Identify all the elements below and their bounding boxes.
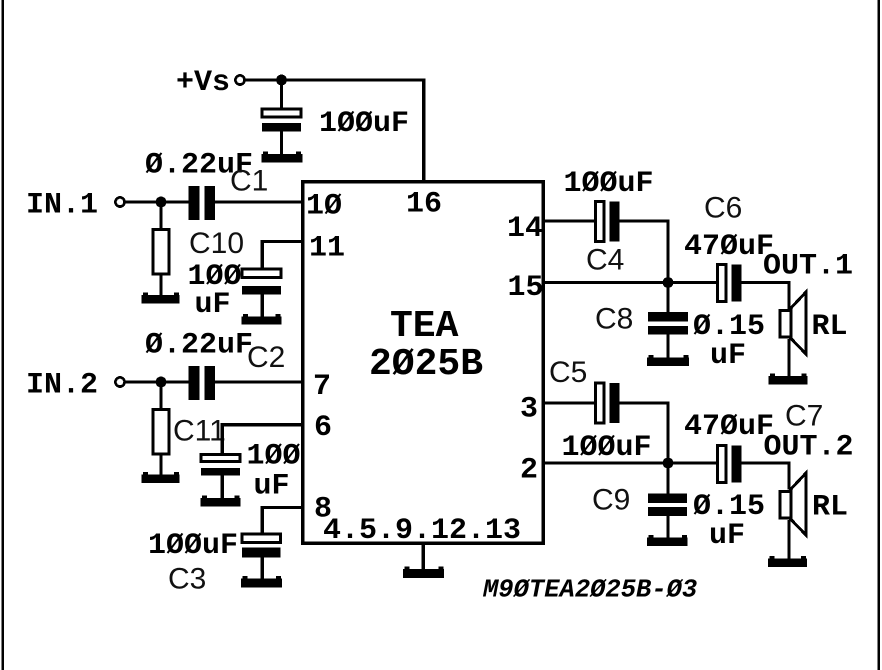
svg-text:6: 6 <box>314 411 332 445</box>
svg-text:1ØØ: 1ØØ <box>247 440 301 474</box>
capacitor C1 (0.22uF, both plates solid) <box>189 186 215 220</box>
svg-text:C2: C2 <box>247 341 285 374</box>
svg-text:IN.2: IN.2 <box>26 369 98 403</box>
wire resistor 2 to ground <box>159 454 162 477</box>
svg-text:C7: C7 <box>785 400 823 433</box>
node junction +Vs <box>276 75 287 86</box>
capacitor C3 (100uF, top plate hollow) <box>242 534 281 558</box>
wire junction ch2 down to C9 <box>666 463 669 494</box>
wire C2 to pin 7 <box>215 380 302 383</box>
wire C3 to ground <box>261 558 264 580</box>
wire resistor to ground <box>159 274 162 297</box>
ground (+Vs cap) <box>262 152 303 163</box>
svg-text:1Ø: 1Ø <box>306 190 342 224</box>
capacitor C5 (100uF, left plate hollow) <box>596 383 620 423</box>
svg-text:uF: uF <box>710 339 746 373</box>
wire cap to ground <box>280 131 283 156</box>
op-amp U1 TEA2025B IC body <box>303 182 544 544</box>
node junction IN.2 <box>156 377 167 388</box>
wire vertical down to IC pin16 <box>422 79 425 184</box>
speaker RL 2 <box>780 473 806 535</box>
svg-text:11: 11 <box>309 232 345 266</box>
wire C4 to corner <box>620 219 670 222</box>
svg-text:Ø.22uF: Ø.22uF <box>145 329 253 363</box>
svg-text:C6: C6 <box>704 192 742 225</box>
svg-text:C10: C10 <box>189 227 244 260</box>
svg-text:47ØuF: 47ØuF <box>684 230 774 264</box>
wire C7 to speaker 2 <box>742 461 791 464</box>
wire C10 to ground <box>261 295 264 318</box>
svg-text:IN.1: IN.1 <box>26 189 98 223</box>
svg-text:TEA: TEA <box>390 305 459 348</box>
wire pin 14 to C4 <box>543 219 597 222</box>
resistor input 2 (unlabelled) <box>153 410 169 455</box>
wire down to C10 <box>261 240 264 270</box>
svg-text:1ØØuF: 1ØØuF <box>319 107 409 141</box>
svg-text:15: 15 <box>508 271 544 305</box>
wire IC bottom to ground <box>421 543 424 571</box>
frame right border <box>877 0 880 670</box>
svg-text:4.5.9.12.13: 4.5.9.12.13 <box>323 514 521 548</box>
wire +Vs horizontal to pin16 corner <box>245 79 425 82</box>
frame left border <box>2 0 5 670</box>
ground (C8) <box>647 355 689 366</box>
svg-text:C11: C11 <box>173 415 226 448</box>
wire pin 8 leftwards <box>262 506 302 509</box>
capacitor C4 (100uF, left plate hollow) <box>596 202 620 242</box>
wire pin 3 to C5 <box>543 401 597 404</box>
capacitor C6 (470uF, left plate hollow) <box>718 265 742 302</box>
svg-text:C4: C4 <box>586 244 624 277</box>
svg-text:RL: RL <box>812 310 848 344</box>
svg-text:2: 2 <box>520 454 538 488</box>
wire C6 to speaker <box>742 281 791 284</box>
svg-text:C1: C1 <box>230 165 268 198</box>
svg-text:47ØuF: 47ØuF <box>684 410 774 444</box>
ground (input resistor 2) <box>142 472 180 483</box>
capacitor C10 (100uF, top plate hollow) <box>242 269 281 295</box>
wire down to speaker 1 <box>787 281 790 309</box>
ground (IC) <box>403 567 444 579</box>
svg-text:2Ø25B: 2Ø25B <box>369 343 483 386</box>
wire junction down to C8 <box>666 283 669 314</box>
svg-text:1ØØuF: 1ØØuF <box>562 431 652 465</box>
ground (speaker 1) <box>769 373 808 384</box>
node junction IN.1 <box>156 197 167 208</box>
wire C1 to pin 10 <box>215 200 302 203</box>
svg-text:16: 16 <box>406 188 442 222</box>
svg-text:RL: RL <box>812 491 848 525</box>
ground (speaker 2) <box>768 556 807 567</box>
resistor input 1 (unlabelled) <box>153 230 169 275</box>
capacitor C11 (100uF, top plate hollow) <box>201 455 240 476</box>
terminal IN.2 <box>115 377 124 386</box>
wire corner down to junction <box>666 219 669 282</box>
svg-text:OUT.2: OUT.2 <box>764 431 854 465</box>
svg-text:uF: uF <box>709 519 745 553</box>
svg-text:3: 3 <box>520 393 538 427</box>
node junction ch1 <box>663 277 674 288</box>
capacitor C2 (0.22uF, both plates solid) <box>189 366 215 400</box>
terminal +Vs <box>235 75 244 84</box>
ground (input resistor 1) <box>142 293 180 304</box>
wire junction down to resistor 2 <box>159 382 162 410</box>
svg-text:OUT.1: OUT.1 <box>763 250 853 284</box>
svg-text:1ØØuF: 1ØØuF <box>148 529 238 563</box>
wire pin 15 to C6 <box>543 281 718 284</box>
svg-text:7: 7 <box>313 370 331 404</box>
svg-text:C3: C3 <box>168 563 206 596</box>
svg-text:C8: C8 <box>595 303 633 336</box>
wire speaker 1 to ground <box>787 339 790 377</box>
ground (C9) <box>647 535 688 546</box>
wire corner down to junction ch2 <box>666 401 669 463</box>
svg-text:M9ØTEA2Ø25B-Ø3: M9ØTEA2Ø25B-Ø3 <box>482 576 697 605</box>
wire C9 to ground <box>666 516 669 538</box>
wire junction down to resistor <box>159 202 162 230</box>
wire C8 to ground <box>666 335 669 359</box>
wire down to C3 <box>261 506 264 535</box>
wire pin 11 leftwards <box>262 240 302 243</box>
svg-text:uF: uF <box>195 288 231 322</box>
capacitor C8 (0.15uF, both plates solid) <box>648 312 688 335</box>
svg-text:14: 14 <box>507 212 543 246</box>
capacitor C9 (0.15uF, both plates solid) <box>648 494 687 517</box>
wire down to speaker 2 <box>787 461 790 489</box>
speaker RL 1 <box>780 292 806 354</box>
ground (C11) <box>201 496 241 507</box>
wire IN.1 to C1 <box>125 200 189 203</box>
ground (C10) <box>242 314 282 325</box>
svg-text:C9: C9 <box>592 484 630 517</box>
capacitor 100uF at +Vs (top plate hollow) <box>262 109 301 132</box>
wire speaker 2 to ground <box>787 520 790 559</box>
wire junction down to C12 <box>280 80 283 110</box>
svg-text:C5: C5 <box>549 356 587 389</box>
wire pin 2 to C7 <box>543 461 718 464</box>
wire down to C11 <box>221 423 224 455</box>
capacitor C7 (470uF, left plate hollow) <box>718 446 742 483</box>
wire C5 to corner <box>620 401 670 404</box>
wire pin 6 leftwards <box>222 423 302 426</box>
terminal IN.1 <box>115 197 124 206</box>
svg-text:+Vs: +Vs <box>176 66 230 100</box>
node junction ch2 <box>663 458 674 469</box>
wire C11 to ground <box>221 476 224 499</box>
ground (C3) <box>241 576 282 588</box>
svg-text:uF: uF <box>254 470 290 504</box>
svg-text:1ØØuF: 1ØØuF <box>564 167 654 201</box>
wire IN.2 to C2 <box>125 380 189 383</box>
